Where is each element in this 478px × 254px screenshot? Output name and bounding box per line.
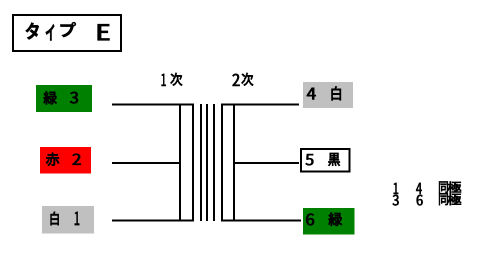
terminal 4 white lead box	[303, 82, 353, 108]
wire secondary top to pin4	[221, 104, 299, 106]
secondary winding outer line	[233, 104, 235, 222]
terminal 1 label 白 1	[51, 212, 80, 225]
primary winding inner line	[192, 104, 194, 222]
secondary winding inner line	[221, 104, 223, 222]
polarity note line 1: 1 4 同極	[394, 181, 461, 194]
terminal 3 label 緑 3	[44, 91, 78, 104]
title text タイプ E	[26, 22, 110, 40]
terminal 6 label 6 緑	[306, 213, 342, 226]
wire pin3 to primary top	[112, 104, 194, 106]
core line 1	[200, 104, 202, 221]
terminal 2 red lead box	[40, 147, 91, 174]
terminal 5 black lead box	[301, 149, 350, 172]
polarity note line 2: 3 6 同極	[393, 193, 461, 205]
terminal 1 white lead box	[42, 206, 94, 234]
label 2次 (secondary)	[232, 73, 253, 86]
wire pin2 to primary center tap	[112, 162, 181, 164]
core line 3	[213, 104, 215, 221]
terminal 5 label 5 黒	[306, 153, 340, 166]
terminal 6 green lead box	[303, 208, 355, 235]
terminal 4 label 4 白	[307, 87, 341, 101]
wire secondary bottom to pin6	[221, 220, 301, 222]
terminal 3 green lead box	[36, 85, 92, 112]
core line 2	[206, 104, 208, 221]
title box タイプE	[13, 15, 121, 51]
wire secondary center tap to pin5	[233, 162, 299, 164]
wire pin1 to primary bottom	[112, 220, 194, 222]
label 1次 (primary)	[162, 73, 183, 86]
terminal 2 label 赤 2	[46, 153, 81, 166]
primary winding outer line	[179, 104, 181, 222]
